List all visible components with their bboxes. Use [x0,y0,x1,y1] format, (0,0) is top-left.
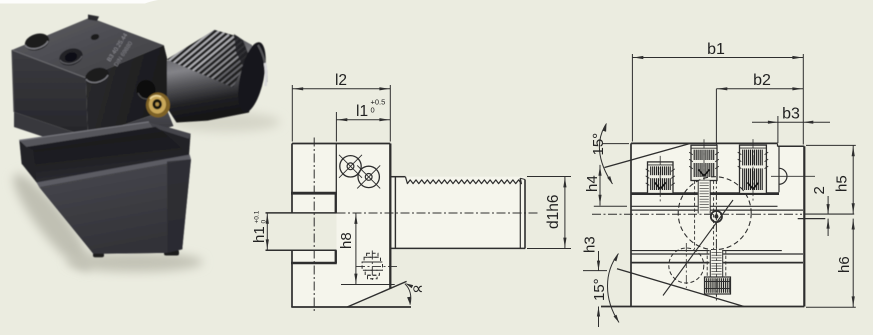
front view: middle screw thread bore [698,181,711,214]
front view: shank circle (dashed) [678,177,751,250]
svg-text:l2: l2 [335,72,347,89]
photo: top face hole 2 (screw) [57,46,85,69]
photo: shank cylinder [159,31,256,122]
photo: lower block feet [93,253,104,257]
photo: top face hole 1 [23,31,52,54]
photo: head flange right [88,110,174,152]
photo: shank end face [233,40,271,115]
svg-text:h5: h5 [834,175,851,192]
side view: clamp screw circle 1 [340,156,361,177]
photo: head right face [86,45,167,137]
photo: lower block body [19,122,190,254]
side view: clamp jaw top (thick) [291,192,337,195]
svg-text:0: 0 [261,220,268,224]
dimension h5 [806,144,856,146]
photo: right wall top strip [149,122,191,139]
side view: body right edge [389,144,391,289]
side view: shank top [390,176,405,178]
dimension b1 [631,54,633,142]
front view: side hole vertical [778,146,780,192]
side view: shank end faces [519,178,521,248]
svg-text:0: 0 [371,106,375,115]
photo: tool holder drop shadow [4,166,100,278]
dimension h1 [266,213,268,250]
photo: top face small hole [90,33,100,41]
svg-text:15°: 15° [591,278,608,301]
svg-text:15°: 15° [590,133,607,156]
front view: bottom screw head [705,277,731,294]
side view: upper jaw [334,193,336,213]
side view: body outline [292,143,390,145]
side view: vertical centerline [313,138,315,314]
photo: right wall front shade [167,159,191,253]
svg-text:h4: h4 [584,175,601,192]
dimension h8 [355,213,357,285]
front view: clamp strip [631,192,779,195]
photo: left wall top strip [19,122,155,147]
side view: clamp screw circle 2 [358,166,379,187]
page corner strip [0,0,158,4]
side view: shank bottom [390,247,525,249]
svg-text:d1h6: d1h6 [545,195,562,229]
dimension h6 [806,306,856,308]
front view: lower hole circle (dashed) [669,248,704,283]
svg-text:l1: l1 [356,103,368,120]
dimension h3 [598,251,600,271]
front view: screw tip at center [711,211,722,222]
side view: horizontal centerline [337,212,538,214]
front view: bottom angle arc [608,254,620,323]
svg-text:h6: h6 [836,256,853,273]
dimension angle alpha [405,284,411,305]
side view: screw centerlines [356,266,397,268]
photo: chamfer face [39,159,191,254]
photo: shank collar shadow [234,34,250,74]
photo: channel floor [33,131,190,182]
dimension 2 [827,196,829,214]
dimension b2 [716,88,803,90]
front view: top slope 15deg [605,144,691,168]
front view: body outline [631,142,778,144]
dimension b3 [777,116,779,143]
photo: head apex tab [88,15,99,22]
front view: body fill [631,143,804,306]
svg-text:2: 2 [811,186,828,194]
front view: bottom chamfer 15deg [617,269,744,307]
front view: horizontal centerline [592,213,802,215]
side view: body fill [292,144,390,308]
side view: shank serration [406,177,522,184]
front view: vertical centerline [715,89,717,143]
front view: top angle arc [599,124,612,185]
svg-text:b3: b3 [782,105,800,122]
front view: set screw left [648,162,674,194]
photo: shank ribs [167,27,273,88]
photo: wedge top bright strip [37,155,191,188]
svg-text:b1: b1 [707,41,725,58]
svg-text:+0.1: +0.1 [254,210,261,223]
side view: inner vertical [335,144,337,213]
front view: lower strip [631,250,782,252]
photo: brass screw [146,93,170,118]
dimension l1 [335,112,337,142]
side view: lower jaw [266,249,337,251]
svg-text:∝: ∝ [412,279,424,298]
photo: head top face [12,18,164,78]
front view: set screw right [740,145,767,193]
svg-text:h1: h1 [251,226,268,243]
front view: set screw middle [691,145,717,180]
front view: diagonal centerline [663,200,733,296]
front view: right step ext lines [804,213,854,215]
dimension h4 [599,165,601,206]
front view: side hole bump [779,168,787,184]
svg-text:b2: b2 [753,72,771,89]
side view: shank fill [390,177,525,249]
photo: top face hole 3 [83,65,111,87]
side view: bottom chamfer [347,281,406,307]
dimension d1h6 [527,176,571,178]
side view: shank rear face [394,177,396,249]
photo: head flange front [14,112,89,152]
svg-text:h8: h8 [338,232,355,249]
photo: head front face [12,50,88,137]
front view: bottom screw threads [710,250,724,277]
svg-text:h3: h3 [582,236,599,253]
side view: screw seat line [341,284,395,286]
photo: left wall inner face [27,127,163,150]
photo: side washer [137,80,156,100]
dimension l2 [291,85,293,142]
side view: hidden set screw (dashed) [367,253,378,257]
